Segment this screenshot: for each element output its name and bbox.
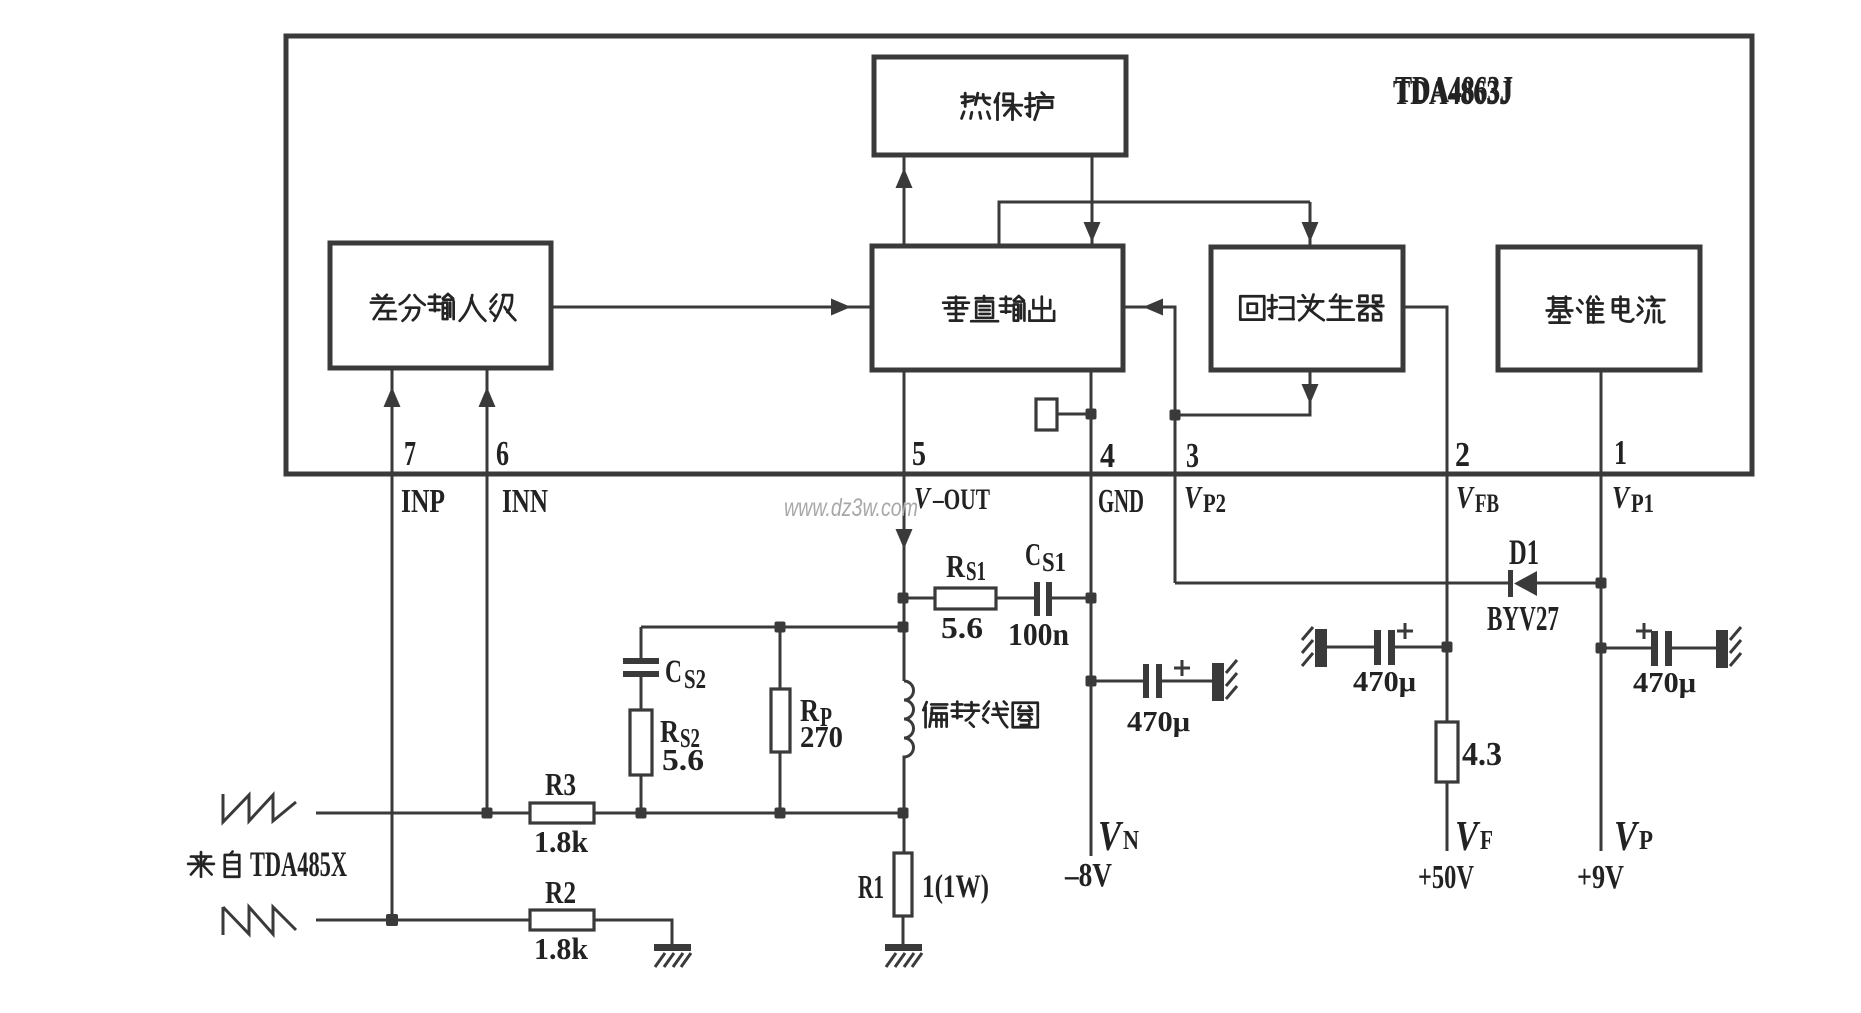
svg-text:470μ: 470μ — [1127, 707, 1190, 738]
junction D1 / VP1 line — [1596, 578, 1607, 589]
wire thermal down to internal rail — [1091, 157, 1094, 202]
svg-text:1.8k: 1.8k — [534, 824, 589, 859]
svg-text:270: 270 — [800, 719, 843, 754]
block flyback generator 回扫发生器 — [1211, 247, 1403, 370]
svg-text:C: C — [1025, 536, 1041, 572]
substrate tab symbol — [1036, 399, 1057, 430]
wire R2 to ground — [594, 920, 672, 946]
svg-text:P2: P2 — [1203, 489, 1226, 518]
block thermal protection 热保护 U-thermal — [874, 57, 1126, 155]
svg-text:1: 1 — [1614, 433, 1627, 472]
wire upper sawtooth to R3 — [316, 812, 530, 815]
junction pin6/R3 rail — [482, 808, 493, 819]
electrolytic cap 470u on VFB line — [1391, 646, 1447, 649]
wire pin3 V_P2 vertical, arrow into vertical output right side — [1125, 307, 1175, 583]
junction pin3/flyback rail — [1170, 410, 1181, 421]
resistor R1 1(1W) — [894, 853, 912, 916]
svg-text:V: V — [1455, 814, 1480, 860]
svg-text:S2: S2 — [684, 664, 706, 694]
svg-text:3: 3 — [1186, 436, 1199, 475]
wire reference current to pin1 — [1600, 370, 1603, 584]
junction pin5/top rail — [898, 622, 909, 633]
wall ground of 470u (VFB) — [1315, 629, 1327, 667]
electrolytic cap 470u on VP1 line — [1601, 647, 1651, 650]
resistor RP 270 — [779, 627, 782, 689]
svg-text:1(1W): 1(1W) — [922, 869, 989, 905]
wire diff stage output to vertical output (right arrow) — [551, 306, 870, 309]
svg-text:5.6: 5.6 — [941, 610, 983, 645]
wire pin6 INN vertical — [486, 368, 489, 813]
internal rail wire — [999, 202, 1310, 246]
svg-text:V: V — [1098, 814, 1123, 860]
svg-text:www.dz3w.com: www.dz3w.com — [784, 494, 918, 522]
wire rail into flyback (down arrow) — [1309, 202, 1312, 245]
svg-text:–8V: –8V — [1064, 857, 1112, 894]
svg-text:1.8k: 1.8k — [534, 931, 589, 966]
ground under R2 — [654, 944, 691, 951]
IC outline TDA4863J — [286, 36, 1752, 474]
svg-text:2: 2 — [1455, 435, 1470, 474]
svg-text:V: V — [1612, 479, 1631, 515]
junction pin7/R2 rail — [386, 914, 398, 926]
svg-text:INP: INP — [401, 483, 445, 520]
svg-text:5: 5 — [912, 434, 926, 473]
capacitor CS2 — [640, 627, 643, 660]
svg-text:+9V: +9V — [1577, 859, 1624, 896]
junction pin5/RS1 — [898, 593, 909, 604]
svg-text:R: R — [946, 548, 966, 584]
plus sign of 470u (GND) — [1174, 660, 1190, 676]
wire pin5 V-OUT vertical upper (down arrow) — [903, 370, 906, 681]
resistor RS2 5.6 — [630, 710, 652, 775]
svg-text:FB: FB — [1475, 489, 1499, 518]
wire pin2 lower / junction with cap — [1442, 642, 1453, 653]
wall ground of 470u (GND) — [1212, 663, 1224, 701]
ground under R1 — [885, 944, 922, 951]
svg-text:R3: R3 — [545, 766, 576, 802]
svg-text:R2: R2 — [545, 874, 576, 910]
junction CS1/GND line — [1086, 593, 1097, 604]
wire lower sawtooth to R2 — [316, 919, 530, 922]
svg-text:BYV27: BYV27 — [1487, 599, 1559, 638]
plus sign of 470u (VP1) — [1636, 623, 1652, 639]
svg-text:–OUT: –OUT — [932, 483, 990, 516]
svg-text:6: 6 — [496, 434, 509, 473]
svg-text:P1: P1 — [1631, 489, 1654, 518]
resistor RS1 5.6 — [904, 597, 935, 600]
svg-text:100n: 100n — [1008, 616, 1069, 652]
junction GND/tab — [1086, 409, 1097, 420]
wire flyback output to pin2 — [1403, 307, 1447, 722]
capacitor CS1 100n — [1034, 582, 1040, 616]
sawtooth waveform lower (INP drive) — [223, 907, 296, 935]
wire thermal to vertical-output (up arrow) — [903, 157, 906, 246]
junction GND line / 470u branch — [1086, 676, 1097, 687]
diode D1 BYV27 — [1175, 582, 1510, 585]
svg-text:V: V — [1614, 814, 1639, 860]
sawtooth waveform upper (INN drive) — [223, 794, 296, 822]
source label 来自TDA485X — [188, 852, 214, 877]
svg-text:4.3: 4.3 — [1462, 736, 1502, 773]
svg-text:470μ: 470μ — [1633, 668, 1696, 699]
top rail CS2/RP to pin5 — [641, 626, 904, 629]
wire flyback bottom to pin3 net (down arrow) — [1175, 370, 1310, 415]
svg-text:TDA4863J: TDA4863J — [1393, 73, 1512, 112]
resistor R3 1.8k — [530, 803, 594, 823]
junction RP/R3 rail — [775, 808, 786, 819]
svg-text:R1: R1 — [858, 869, 884, 906]
block differential input stage 差分输入级 — [330, 243, 551, 368]
svg-text:F: F — [1480, 825, 1493, 855]
svg-text:7: 7 — [404, 434, 416, 473]
svg-text:S1: S1 — [1042, 547, 1066, 577]
wire pin7 INP vertical — [391, 368, 394, 920]
wire pin4 GND vertical — [1090, 370, 1093, 856]
svg-text:4: 4 — [1100, 436, 1115, 475]
svg-text:INN: INN — [502, 483, 548, 520]
wire rail into vertical output (down arrow) — [1091, 202, 1094, 244]
wire substrate tab to GND line — [1057, 413, 1091, 416]
block vertical output 垂直输出 — [872, 246, 1123, 370]
svg-text:V: V — [1184, 479, 1203, 515]
resistor R2 1.8k — [530, 910, 594, 930]
junction RS2/R3 rail — [636, 808, 647, 819]
junction VP1 / 470u branch — [1596, 643, 1607, 654]
svg-text:5.6: 5.6 — [662, 742, 704, 777]
svg-text:TDA485X: TDA485X — [250, 844, 347, 884]
label 偏转线圈 deflection coil — [923, 702, 947, 727]
svg-text:+50V: +50V — [1418, 859, 1474, 896]
svg-text:N: N — [1123, 825, 1139, 855]
svg-text:GND: GND — [1098, 483, 1144, 520]
svg-text:D1: D1 — [1509, 532, 1539, 572]
junction pin5/R3 rail — [898, 808, 909, 819]
svg-text:S1: S1 — [966, 556, 986, 586]
wall ground of 470u (VP1) — [1716, 630, 1728, 668]
electrolytic cap 470u on GND line — [1091, 680, 1143, 683]
junction RP/top rail — [775, 622, 786, 633]
svg-text:P: P — [1639, 825, 1653, 855]
plus sign of 470u (VFB) — [1397, 623, 1413, 639]
svg-text:V: V — [1456, 479, 1475, 515]
svg-text:470μ: 470μ — [1353, 667, 1416, 698]
block reference current 基准电流 — [1498, 247, 1700, 370]
wire pin1 VP1 lower — [1600, 583, 1603, 851]
resistor 4.3 on VFB line — [1436, 722, 1458, 782]
deflection coil 偏转线圈 — [904, 681, 914, 853]
svg-text:C: C — [665, 654, 682, 690]
wire R3 to pin5 node — [594, 812, 904, 815]
